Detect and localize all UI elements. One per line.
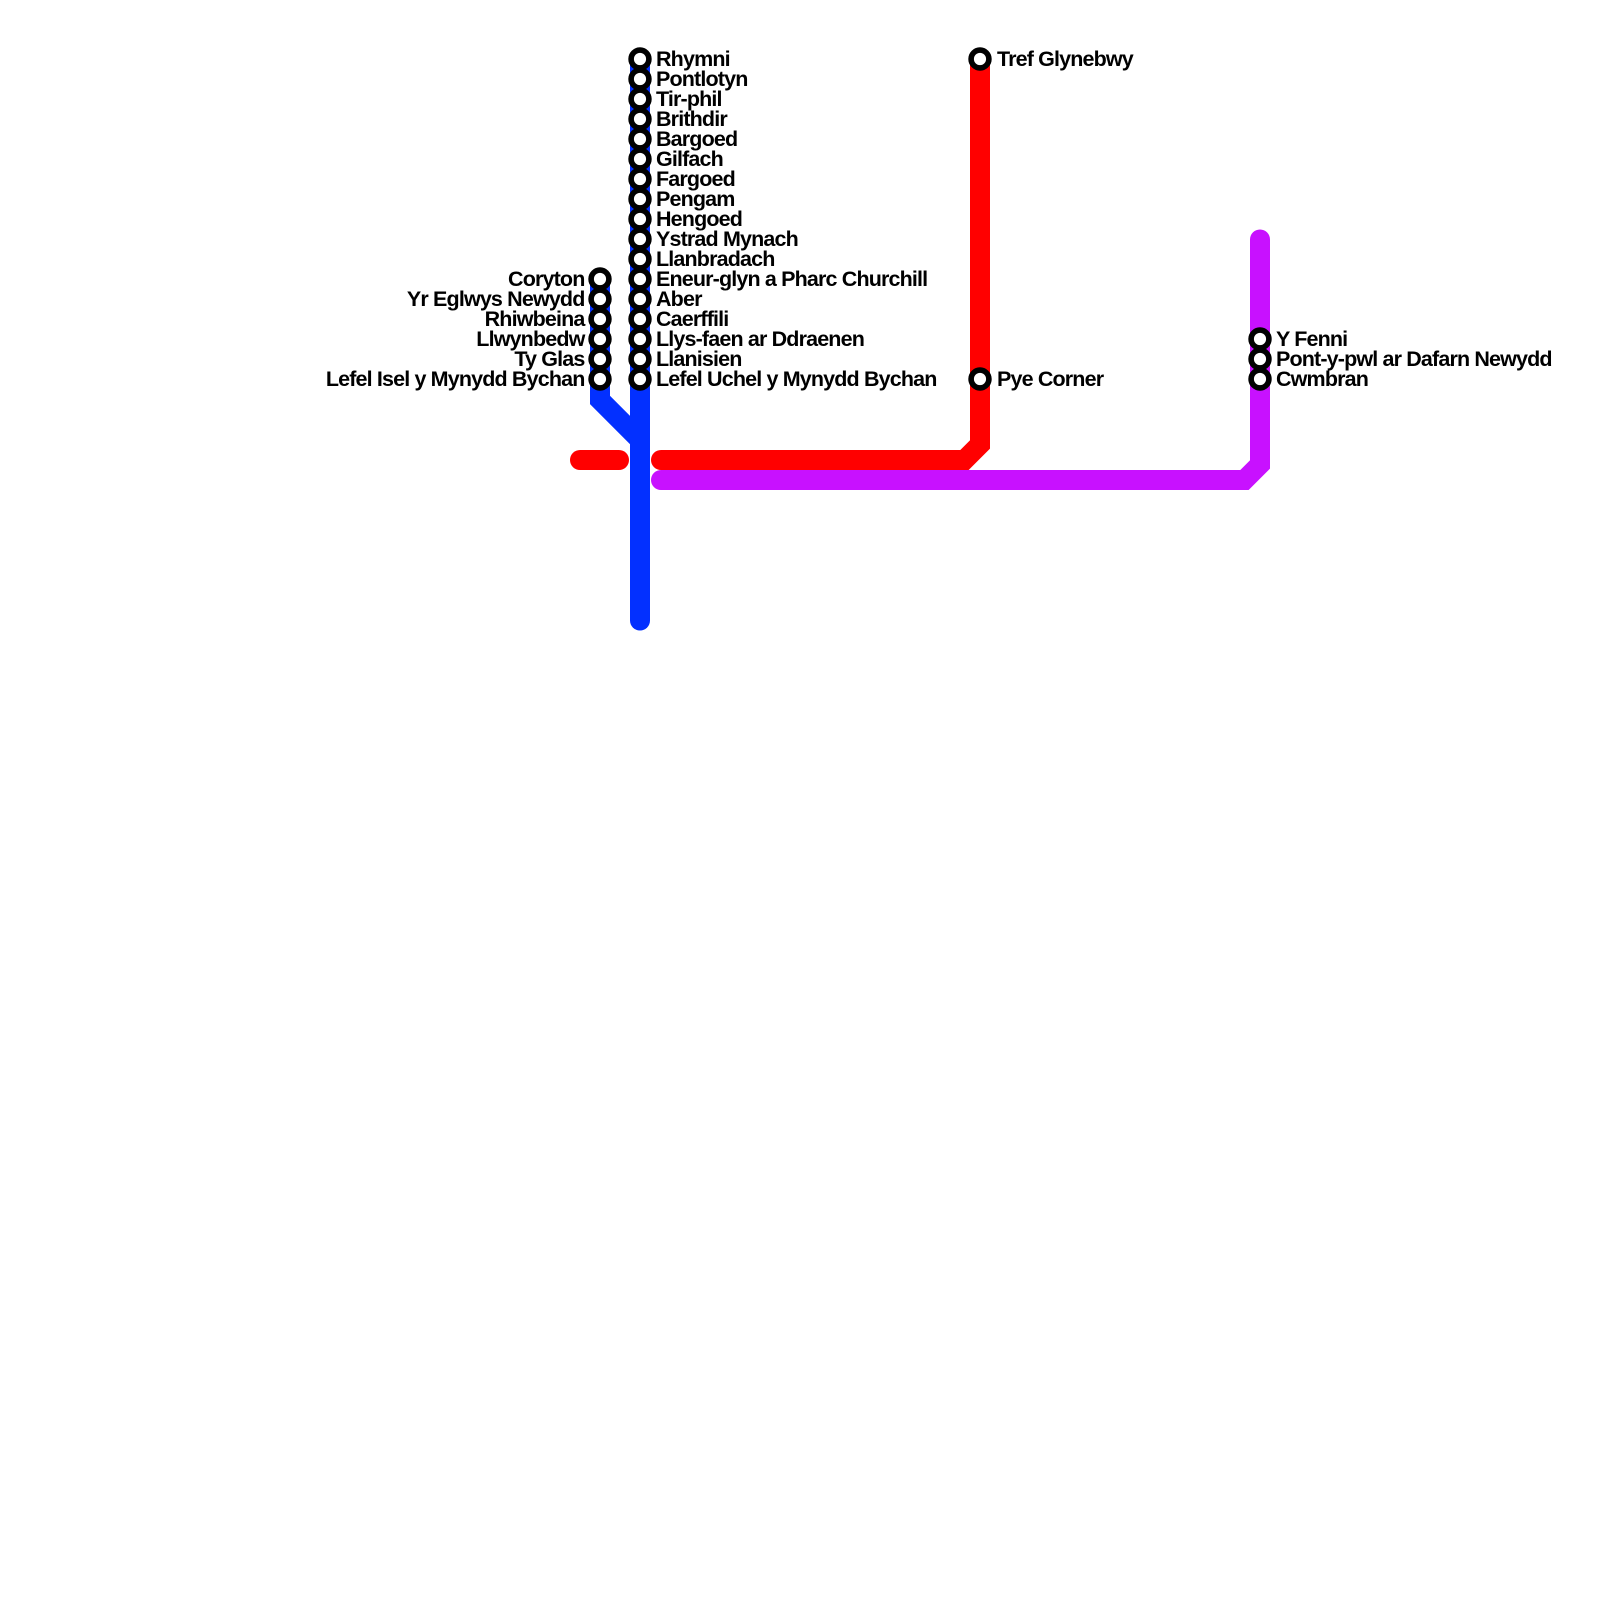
svg-text:Cwmbran: Cwmbran	[1276, 367, 1368, 391]
svg-text:Tref Glynebwy: Tref Glynebwy	[997, 47, 1134, 71]
node Llanisien	[631, 350, 649, 368]
svg-text:Lefel Uchel y Mynydd Bychan: Lefel Uchel y Mynydd Bychan	[656, 367, 937, 391]
node Fargoed	[631, 170, 649, 188]
svg-text:Lefel Isel y Mynydd Bychan: Lefel Isel y Mynydd Bychan	[326, 367, 585, 391]
node Yr Eglwys Newydd	[591, 290, 609, 308]
node Pengam	[631, 190, 649, 208]
node Tir-phil	[631, 90, 649, 108]
node Rhiwbeina	[591, 310, 609, 328]
node Pye Corner	[971, 370, 989, 388]
node Rhymni	[631, 50, 649, 68]
node Hengoed	[631, 210, 649, 228]
node Ty Glas	[591, 350, 609, 368]
svg-text:Pye Corner: Pye Corner	[997, 367, 1105, 391]
node Tref Glynebwy	[971, 50, 989, 68]
node Pontlotyn	[631, 70, 649, 88]
node Eneur-glyn a Pharc Churchill	[631, 270, 649, 288]
node Gilfach	[631, 150, 649, 168]
node Aber	[631, 290, 649, 308]
node Bargoed	[631, 130, 649, 148]
node Llanbradach	[631, 250, 649, 268]
wire purple line Y Fenni branch	[661, 240, 1260, 481]
node Y Fenni	[1251, 330, 1269, 348]
wire blue main line	[630, 59, 650, 621]
node Brithdir	[631, 110, 649, 128]
node Llwynbedw	[591, 330, 609, 348]
wire red stub west of junction	[580, 450, 619, 470]
wire red line Tref Glynebwy to west terminus	[661, 59, 980, 460]
node Caerffili	[631, 310, 649, 328]
node Lefel Uchel y Mynydd Bychan	[631, 370, 649, 388]
node Ystrad Mynach	[631, 230, 649, 248]
node Coryton	[591, 270, 609, 288]
node Cwmbran	[1251, 370, 1269, 388]
node Llys-faen ar Ddraenen	[631, 330, 649, 348]
wire blue Coryton branch	[600, 279, 640, 440]
node Pont-y-pwl ar Dafarn Newydd	[1251, 350, 1269, 368]
node Lefel Isel y Mynydd Bychan	[591, 370, 609, 388]
